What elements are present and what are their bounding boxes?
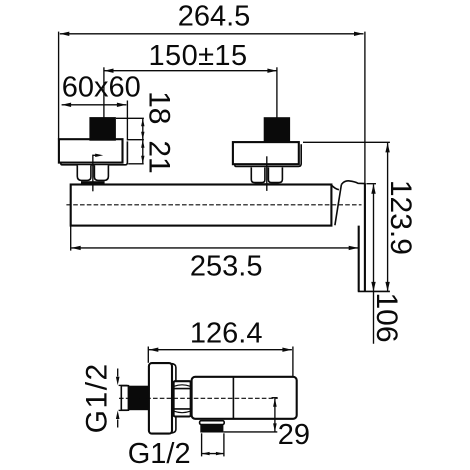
- right plate center leader line: [266, 156, 268, 191]
- dimension extension plate bottom: [128, 163, 144, 165]
- left valve stem knob: [90, 118, 116, 141]
- G1/2 outlet dimension line: [202, 452, 224, 455]
- dimension line 106: [371, 184, 375, 343]
- body top bump arc: [341, 181, 365, 185]
- extension line arm right edge: [364, 32, 366, 185]
- dimension extension plate top: [128, 139, 144, 141]
- side view dimension text 126.4: [190, 317, 263, 349]
- svg-text:21: 21: [143, 140, 176, 173]
- extension line left plate edge: [58, 32, 60, 140]
- dimension line 150±15: [104, 69, 277, 73]
- extension line 60x60 right: [126, 101, 128, 141]
- svg-text:150±15: 150±15: [149, 40, 248, 72]
- side view faucet body: [192, 377, 297, 419]
- svg-text:123.9: 123.9: [384, 180, 417, 255]
- side view outlet collar: [200, 421, 225, 425]
- dimension text 18: [143, 91, 176, 124]
- side view dimension line 126.4: [149, 348, 292, 352]
- side view escutcheon plate: [149, 363, 172, 434]
- dimension text 60x60: [62, 72, 141, 104]
- body right end slant line: [335, 185, 342, 226]
- extension line 123.9 top: [303, 141, 390, 143]
- dimension line 18: [141, 118, 144, 139]
- dimension text 253.5: [190, 251, 263, 283]
- G1/2 inlet dimension arrows: [116, 369, 128, 428]
- left valve hex nut: [77, 165, 108, 184]
- body dashed centerline: [66, 204, 361, 206]
- left plate center leader line: [93, 154, 103, 192]
- dimension line 60x60: [62, 103, 127, 107]
- dimension text 150±15: [149, 40, 248, 72]
- G1/2 outlet extension lines: [202, 433, 224, 456]
- dimension line 29: [273, 398, 277, 432]
- side ext line plate left: [147, 347, 149, 363]
- dimension text 21: [143, 140, 176, 173]
- side view inlet thread (black): [128, 386, 149, 411]
- dimension 18 extension knob top: [116, 117, 144, 119]
- shower arm outlet tube: [358, 183, 390, 291]
- right valve stem knob: [264, 118, 289, 142]
- right valve escutcheon plate: [233, 142, 301, 166]
- svg-text:106: 106: [370, 292, 403, 342]
- svg-text:253.5: 253.5: [190, 251, 263, 283]
- dimension line 123.9: [385, 143, 389, 292]
- body right end fillet curve: [332, 185, 339, 190]
- dimension text 106: [370, 292, 403, 342]
- side view outlet thread (black): [200, 425, 223, 433]
- svg-text:29: 29: [278, 419, 310, 451]
- extension line 29 bottom: [223, 431, 277, 433]
- left valve escutcheon plate: [59, 139, 128, 165]
- extension line 106 top: [366, 183, 376, 185]
- extension line body left (253.5): [70, 226, 72, 251]
- svg-text:60x60: 60x60: [62, 72, 141, 104]
- dimension line 264.5: [60, 32, 364, 36]
- svg-text:G1/2: G1/2: [81, 362, 114, 433]
- side ext line body right: [292, 347, 294, 377]
- faucet body: [71, 185, 332, 226]
- dimension text 123.9: [384, 180, 417, 255]
- dimension line 253.5: [71, 246, 358, 250]
- dimension line 21: [141, 140, 144, 164]
- side view dashed centerline: [119, 397, 278, 399]
- svg-text:18: 18: [143, 91, 176, 124]
- svg-text:G1/2: G1/2: [128, 438, 191, 470]
- right valve axis centerline: [276, 67, 278, 161]
- G1/2 outlet text: [128, 438, 191, 470]
- svg-text:264.5: 264.5: [178, 1, 251, 33]
- side view inlet thread end cap: [121, 386, 128, 411]
- left valve axis centerline: [103, 67, 105, 158]
- right valve hex nut: [251, 167, 282, 185]
- dimension text 29: [278, 419, 310, 451]
- dimension text 264.5: [178, 1, 251, 33]
- G1/2 inlet text: [81, 362, 114, 433]
- svg-text:126.4: 126.4: [190, 317, 263, 349]
- side view hex nut: [174, 381, 191, 416]
- extension tick 29 top: [272, 397, 278, 399]
- side view escutcheon plate bevel: [172, 364, 176, 434]
